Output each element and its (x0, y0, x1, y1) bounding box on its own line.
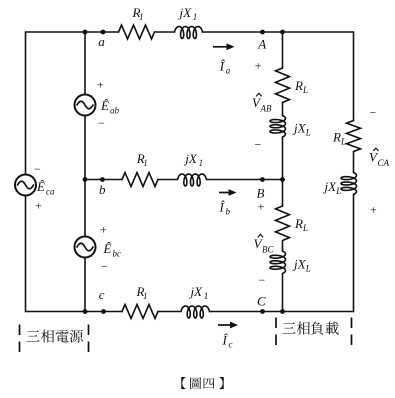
current arrow Ia (213, 43, 235, 50)
svg-text:+: + (100, 222, 107, 236)
junction node b (100, 177, 105, 182)
wire right branch bottom (353, 195, 355, 312)
inductor jX1 (line c) (181, 306, 210, 318)
resistor R1 (line a) (119, 25, 155, 39)
svg-text:+: + (255, 58, 262, 72)
AC source Ebc circle (75, 237, 96, 258)
svg-text:L: L (305, 264, 311, 274)
wire load branch A to RL (282, 32, 284, 68)
svg-text:AB: AB (260, 104, 272, 114)
value label jXL (B-C branch) (292, 257, 311, 274)
node c label (99, 287, 105, 302)
svg-text:ca: ca (46, 187, 55, 197)
inductor jX1 (line a) (175, 27, 203, 39)
svg-text:jX: jX (178, 5, 193, 20)
svg-text:BC: BC (262, 245, 274, 255)
svg-text:Ê: Ê (103, 241, 112, 256)
wire left bus lower (Eca bottom) (25, 196, 27, 312)
svg-text:R: R (294, 216, 303, 231)
svg-text:L: L (340, 136, 346, 146)
source label Eab (100, 98, 120, 116)
svg-text:jX: jX (183, 151, 198, 166)
svg-text:A: A (257, 36, 266, 51)
wire row c: bottom return from left bus to R1 (26, 311, 123, 313)
svg-text:bc: bc (113, 249, 122, 259)
svg-text:c: c (229, 340, 233, 350)
polarity - (Ebc) (101, 260, 108, 274)
node A label (257, 36, 266, 51)
current label Ic (222, 333, 233, 350)
wire RL to jXL (A-B branch) (282, 103, 284, 116)
wire line c to node C and bottom-right corner (210, 311, 354, 313)
svg-text:−: − (258, 273, 265, 287)
polarity + (VAB) (255, 58, 262, 72)
resistor R1 (line c) (122, 305, 158, 319)
svg-text:R: R (332, 129, 341, 144)
resistor RL (C-A branch) (347, 121, 361, 152)
wire row a: source bus to R1 (26, 31, 119, 33)
wire row b: source to R1 (85, 179, 122, 181)
wire mid bus a to Eab (84, 32, 86, 95)
node a label (98, 34, 105, 49)
AC source Ebc sine (77, 243, 93, 251)
svg-text:a: a (98, 34, 105, 49)
wire left bus upper (Eca top) (25, 32, 27, 175)
inductor jX1 (line b) (178, 174, 207, 186)
AC source Eab sine (77, 101, 93, 109)
svg-text:+: + (97, 78, 104, 92)
inductor jXL (C-A branch) (341, 173, 357, 195)
source label Eca (36, 179, 55, 197)
svg-text:C: C (257, 293, 266, 308)
wire load branch B to RL (282, 180, 284, 207)
wire RL to jXL (B-C branch) (282, 241, 284, 252)
junction node c (101, 309, 106, 314)
inductor jXL (A-B branch) (270, 116, 286, 138)
dashed marker left of three-phase load label (275, 318, 277, 347)
svg-text:1: 1 (199, 158, 204, 168)
svg-text:1: 1 (143, 291, 148, 301)
polarity + (Eab) (97, 78, 104, 92)
svg-text:L: L (335, 186, 341, 196)
polarity + (VCA) (370, 203, 377, 217)
value label jX1 (line c) (189, 284, 209, 301)
polarity - (Eca) (34, 162, 41, 176)
svg-text:1: 1 (193, 12, 198, 22)
polarity - (VCA) (370, 106, 377, 120)
wire RL to jXL (C-A branch) (353, 152, 355, 173)
wire jXL to node B (A-B branch) (282, 137, 284, 180)
junction node a bus (83, 30, 88, 35)
svg-text:−: − (98, 116, 105, 130)
dashed marker right of three-phase load label (351, 318, 353, 347)
svg-text:L: L (302, 85, 308, 95)
svg-text:−: − (101, 260, 108, 274)
svg-text:Ê: Ê (100, 98, 109, 113)
label three-phase source (san xiang dian yuan) (26, 330, 83, 343)
current arrow Ib (219, 189, 237, 196)
value label R1 (line c) (136, 284, 148, 301)
junction node A (260, 30, 265, 35)
value label RL (C-A branch) (332, 129, 346, 146)
current label Ia (219, 59, 231, 76)
source label Ebc (103, 241, 122, 259)
svg-text:+: + (258, 200, 265, 214)
polarity + (Ebc) (100, 222, 107, 236)
junction node C branch (280, 309, 285, 314)
svg-text:1: 1 (204, 291, 209, 301)
svg-text:CA: CA (378, 158, 390, 168)
svg-text:−: − (34, 162, 41, 176)
dashed marker right of three-phase source label (88, 325, 90, 354)
resistor R1 (line b) (122, 173, 158, 187)
node b label (99, 182, 106, 197)
current label Ib (219, 200, 231, 217)
AC source Eca circle (15, 175, 36, 196)
wire mid bus Ebc to c (84, 258, 86, 312)
value label jX1 (line b) (183, 151, 203, 168)
wire jXL to node C (B-C branch) (282, 274, 284, 312)
svg-text:−: − (255, 138, 262, 152)
polarity - (VAB) (255, 138, 262, 152)
svg-text:L: L (302, 223, 308, 233)
label three-phase load (san xiang fu zai) (282, 322, 338, 335)
junction node a (101, 30, 106, 35)
svg-text:−: − (370, 106, 377, 120)
junction node b bus (83, 177, 88, 182)
junction node B branch (280, 177, 285, 182)
value label jX1 (line a) (178, 5, 198, 22)
junction node c bus (83, 309, 88, 314)
svg-text:jX: jX (189, 284, 204, 299)
wire mid bus b to Ebc (84, 180, 86, 237)
AC source Eab circle (75, 95, 96, 116)
dashed marker left of three-phase source label (19, 325, 21, 354)
voltage label VAB (252, 93, 272, 113)
svg-text:R: R (294, 78, 303, 93)
junction node A branch (280, 30, 285, 35)
value label RL (A-B branch) (294, 78, 308, 95)
AC source Eca sine (18, 181, 34, 189)
svg-text:b: b (99, 182, 106, 197)
inductor jXL (B-C branch) (270, 251, 286, 274)
polarity + (Eca) (35, 199, 42, 213)
current arrow Ic (218, 322, 238, 329)
svg-text:ab: ab (110, 106, 120, 116)
polarity + (VBC) (258, 200, 265, 214)
polarity - (VBC) (258, 273, 265, 287)
value label R1 (line a) (132, 5, 144, 22)
svg-text:1: 1 (143, 158, 148, 168)
value label RL (B-C branch) (294, 216, 308, 233)
voltage label VBC (254, 234, 275, 254)
junction node C (260, 309, 265, 314)
junction node B (260, 177, 265, 182)
svg-text:jX: jX (292, 257, 307, 272)
wire between R1 and jX1 (line c) (158, 311, 181, 313)
node B label (257, 185, 265, 200)
svg-text:b: b (226, 207, 231, 217)
wire mid bus Eab to b (84, 116, 86, 180)
wire between R1 and jX1 (line b) (158, 179, 178, 181)
value label jXL (A-B branch) (292, 121, 311, 138)
node C label (257, 293, 266, 308)
wire line a to node A and top-right corner (203, 31, 354, 33)
svg-text:a: a (226, 66, 231, 76)
svg-text:L: L (305, 128, 311, 138)
svg-text:Ê: Ê (36, 179, 45, 194)
resistor RL (A-B branch) (276, 68, 290, 103)
value label jXL (C-A branch) (323, 179, 342, 196)
svg-text:jX: jX (292, 121, 307, 136)
svg-text:jX: jX (323, 179, 338, 194)
caption figure four (181, 377, 223, 389)
wire right branch top (353, 32, 355, 121)
svg-text:+: + (35, 199, 42, 213)
value label R1 (line b) (136, 151, 148, 168)
voltage label VCA (369, 148, 390, 168)
svg-text:1: 1 (139, 12, 144, 22)
wire line b to node B (207, 179, 283, 181)
svg-text:+: + (370, 203, 377, 217)
polarity - (Eab) (98, 116, 105, 130)
resistor RL (B-C branch) (276, 206, 290, 241)
wire between R1 and jX1 (line a) (155, 31, 175, 33)
svg-text:B: B (257, 185, 265, 200)
svg-text:c: c (99, 287, 105, 302)
